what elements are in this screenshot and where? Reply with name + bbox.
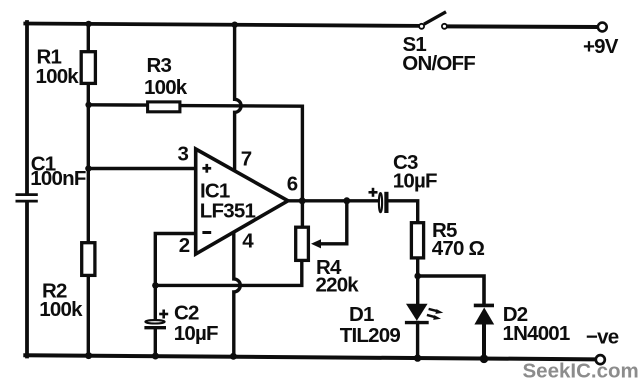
wire D1 bottom to rail [416, 323, 419, 359]
node R2 rail [85, 352, 92, 359]
LED D1 [406, 304, 428, 321]
svg-text:100k: 100k [39, 298, 83, 321]
node R5/D1/D2 [414, 273, 421, 280]
svg-text:6: 6 [287, 173, 298, 196]
wire pin3 input [88, 167, 196, 170]
wire R1 branch vertical x=88 [87, 24, 90, 52]
node pin3 [85, 165, 91, 171]
svg-text:100nF: 100nF [30, 167, 86, 190]
node C2 rail [152, 353, 159, 360]
svg-text:100k: 100k [144, 76, 188, 99]
svg-text:D1: D1 [349, 303, 374, 326]
wire left rail upper (above C1) [25, 22, 29, 193]
node R1/R3 [85, 102, 91, 108]
wire bottom rail [25, 355, 594, 359]
wire R5 bottom to junction [416, 258, 419, 305]
C3 plus sign [369, 188, 378, 197]
svg-text:470 Ω: 470 Ω [432, 237, 485, 260]
node D2 rail [480, 355, 489, 364]
svg-text:3: 3 [178, 142, 189, 165]
terminal +9V [598, 23, 607, 32]
switch S1 [419, 24, 424, 29]
svg-text:10µF: 10µF [174, 322, 218, 345]
capacitor C3 (electrolytic, series) [379, 193, 382, 212]
resistor R1 [81, 52, 95, 84]
wire C3 right to corner then down to R5 [389, 201, 418, 223]
wire pin2 input: left then down then right to R4 bottom [155, 234, 301, 286]
svg-text:LF351: LF351 [200, 199, 256, 222]
wire pin4 vertical with hop over pin2 wire [234, 231, 241, 357]
svg-text:TIL209: TIL209 [340, 324, 401, 347]
wire output from op-amp apex to C3 [287, 199, 377, 202]
svg-text:−ve: −ve [586, 326, 619, 349]
op-amp minus input mark [202, 231, 211, 234]
C2 plus sign [159, 310, 168, 319]
svg-text:100k: 100k [36, 65, 80, 88]
wire pin7 vertical with hop over feedback wire [235, 25, 242, 172]
wire junction to D2 branch [418, 276, 484, 305]
terminal -ve [596, 355, 605, 364]
node D1 rail [414, 354, 421, 361]
svg-text:4: 4 [242, 229, 254, 252]
capacitor C2 (electrolytic) [145, 320, 164, 323]
svg-text:7: 7 [241, 148, 252, 171]
resistor R4 [296, 227, 309, 260]
svg-text:1N4001: 1N4001 [503, 322, 570, 345]
wire D2 bottom to rail [482, 324, 486, 359]
wire top rail [25, 24, 418, 26]
svg-text:R3: R3 [147, 54, 172, 77]
node wiper [343, 197, 350, 204]
D1 light arrows [427, 309, 443, 320]
node output/R4 [299, 197, 306, 204]
op-amp U1 triangle [196, 149, 288, 254]
wire R3 feedback: horizontal y=105 then down x=302 to output node and R4 top [88, 103, 146, 107]
node R1 top [85, 21, 91, 27]
op-amp plus input mark [202, 164, 211, 173]
node pin4 rail [230, 353, 237, 360]
R4 wiper arrow head [311, 239, 321, 248]
diode D2 (pointing up) [474, 304, 494, 308]
svg-text:10µF: 10µF [393, 169, 437, 192]
node pin2/C2 [152, 282, 159, 289]
wire R4 wiper: from output node down then left [320, 201, 347, 244]
wire switch to +9V terminal [447, 24, 597, 29]
resistor R2 [82, 243, 95, 276]
svg-text:220k: 220k [316, 274, 360, 297]
wire left rail lower (below C1) [25, 202, 29, 356]
resistor R5 [411, 223, 423, 258]
capacitor C1 plates [16, 195, 38, 202]
svg-text:2: 2 [179, 234, 190, 257]
svg-text:SeekIC.com: SeekIC.com [523, 359, 639, 382]
svg-text:ON/OFF: ON/OFF [402, 52, 475, 75]
resistor R3 [148, 102, 180, 112]
node pin7 rail [232, 22, 238, 28]
wire C2 vertical stub [154, 285, 157, 320]
svg-text:+9V: +9V [583, 35, 619, 58]
